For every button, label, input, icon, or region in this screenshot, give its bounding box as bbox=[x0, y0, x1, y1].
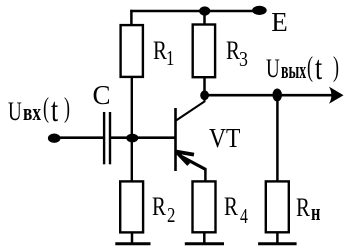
label Uвх(t): ) bbox=[64, 94, 70, 123]
label Rн: н subscript bbox=[311, 201, 320, 225]
wire R1 bottom to R2 top through base node bbox=[131, 77, 133, 182]
resistor R3 bbox=[193, 25, 215, 78]
label E supply bbox=[271, 9, 288, 36]
label Uвых(t): t bbox=[315, 52, 322, 86]
node top rail junction dot bbox=[199, 6, 210, 15]
label VT transistor bbox=[209, 125, 240, 152]
wire load resistor top bbox=[276, 95, 279, 182]
terminal input oval bbox=[48, 134, 61, 143]
ground under R4 bbox=[185, 242, 224, 245]
terminal E oval bbox=[252, 6, 267, 15]
node collector junction dot bbox=[200, 90, 209, 100]
ground under R2 bbox=[115, 242, 150, 245]
label Rн: R bbox=[296, 195, 310, 221]
wire output line bbox=[205, 94, 337, 97]
wire R1 top stub bbox=[130, 10, 133, 26]
label R1: 1 subscript bbox=[166, 48, 174, 69]
label Uвых(t): U bbox=[266, 56, 280, 82]
wire capacitor to base node to transistor base bbox=[111, 136, 175, 139]
wire Rн bottom stub bbox=[276, 232, 279, 244]
wire top supply rail bbox=[130, 10, 255, 13]
transistor VT emitter arrow barb lower bbox=[176, 152, 188, 165]
resistor R1 bbox=[121, 25, 143, 77]
transistor VT emitter arrow barb upper bbox=[176, 152, 194, 155]
wire R4 bottom stub bbox=[203, 232, 206, 244]
label R1: R bbox=[153, 38, 167, 64]
label Uвх(t): ( bbox=[43, 94, 49, 123]
label C capacitor bbox=[93, 82, 111, 109]
wire R3 top stub bbox=[203, 10, 206, 25]
transistor VT base bar bbox=[174, 108, 177, 171]
label Uвх(t): U bbox=[8, 99, 22, 125]
label R4: R bbox=[224, 194, 238, 220]
resistor R4 bbox=[193, 181, 216, 232]
wire R3 bottom stub bbox=[203, 77, 206, 95]
label Uвых(t): вых subscript bbox=[281, 59, 306, 83]
resistor Rн load bbox=[266, 181, 289, 232]
label Uвых(t): ( bbox=[307, 53, 313, 82]
label Uвх(t): вх subscript bbox=[23, 101, 41, 125]
label R3: 3 subscript bbox=[239, 49, 248, 70]
arrowhead output bbox=[329, 87, 344, 104]
node base junction dot bbox=[126, 134, 138, 143]
label R2: R bbox=[152, 194, 166, 220]
transistor VT collector lead bbox=[176, 94, 205, 121]
capacitor C right plate bbox=[109, 112, 111, 164]
wire input to capacitor bbox=[58, 136, 104, 139]
transistor VT emitter lead vertical bbox=[204, 168, 207, 181]
resistor R2 bbox=[120, 181, 143, 232]
node output junction dot bbox=[272, 89, 282, 102]
capacitor C left plate bbox=[103, 112, 105, 164]
wire R2 bottom stub bbox=[131, 232, 134, 244]
label R3: R bbox=[226, 38, 240, 64]
label Uвых(t): ) bbox=[333, 53, 339, 82]
label R4: 4 subscript bbox=[240, 206, 248, 227]
label Uвх(t): t bbox=[51, 94, 58, 128]
ground under Rн bbox=[258, 242, 297, 245]
label R2: 2 subscript bbox=[167, 205, 175, 226]
transistor VT emitter lead diagonal bbox=[182, 157, 206, 170]
